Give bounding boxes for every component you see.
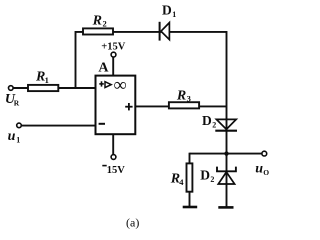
- svg-text:4: 4: [179, 177, 184, 187]
- svg-text:R: R: [14, 99, 20, 108]
- svg-text:u: u: [8, 129, 16, 144]
- svg-text:D: D: [202, 113, 212, 128]
- svg-text:2: 2: [103, 18, 107, 28]
- svg-text:A: A: [98, 60, 109, 75]
- svg-text:∞: ∞: [114, 74, 127, 94]
- svg-text:O: O: [263, 168, 269, 177]
- svg-text:R: R: [92, 13, 102, 28]
- svg-text:15V: 15V: [107, 165, 126, 176]
- svg-text:u: u: [255, 162, 263, 177]
- svg-text:D: D: [200, 168, 210, 183]
- svg-text:1: 1: [172, 10, 176, 19]
- svg-text:2: 2: [212, 121, 216, 130]
- svg-text:(a): (a): [126, 215, 139, 229]
- svg-text:R: R: [176, 88, 186, 103]
- svg-text:3: 3: [187, 94, 191, 104]
- svg-text:D: D: [162, 3, 172, 18]
- svg-text:1: 1: [16, 135, 20, 144]
- svg-text:+15V: +15V: [101, 42, 125, 53]
- svg-text:2: 2: [210, 175, 214, 184]
- svg-text:1: 1: [45, 75, 49, 85]
